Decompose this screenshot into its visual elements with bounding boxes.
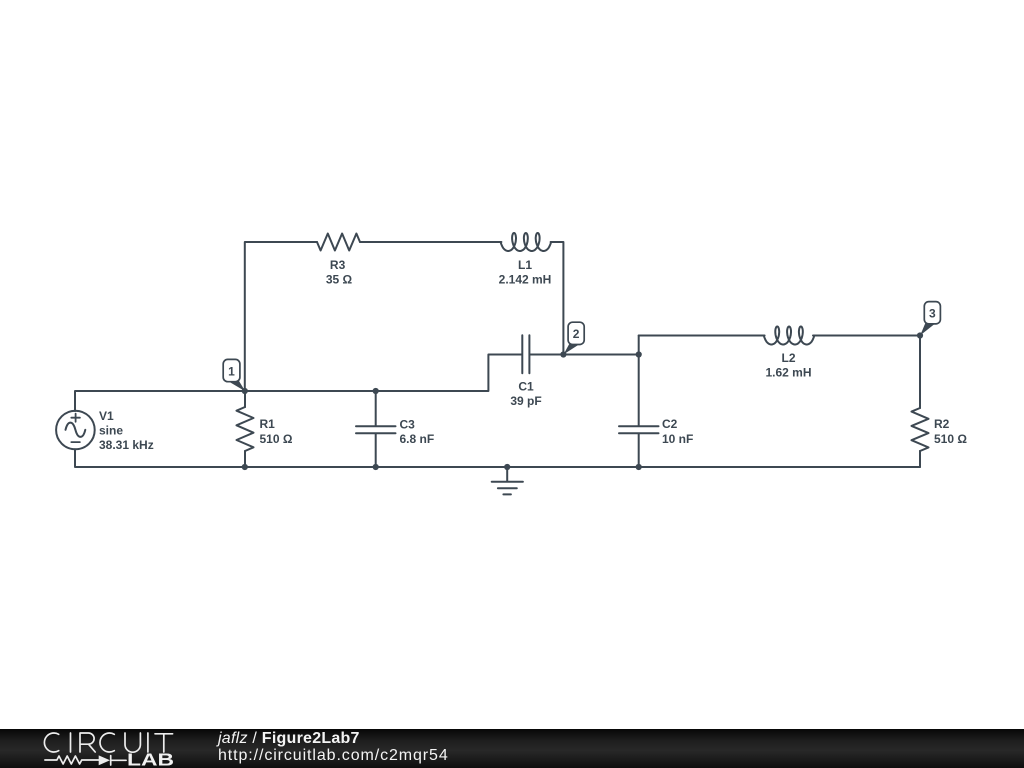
svg-text:R1: R1 [260,417,276,431]
svg-text:C3: C3 [400,418,416,432]
svg-text:3: 3 [929,307,936,321]
svg-text:V1: V1 [99,409,114,423]
svg-text:39 pF: 39 pF [510,394,541,408]
svg-text:C2: C2 [662,417,678,431]
svg-text:38.31 kHz: 38.31 kHz [99,438,154,452]
svg-text:sine: sine [99,424,123,438]
svg-text:6.8 nF: 6.8 nF [400,432,435,446]
svg-text:510 Ω: 510 Ω [934,432,967,446]
svg-text:L1: L1 [518,258,532,272]
svg-text:C1: C1 [518,380,534,394]
svg-text:35 Ω: 35 Ω [326,273,353,287]
svg-text:10 nF: 10 nF [662,432,693,446]
svg-text:R3: R3 [330,258,346,272]
svg-text:2.142 mH: 2.142 mH [499,273,552,287]
svg-text:1: 1 [228,364,235,378]
svg-text:510 Ω: 510 Ω [260,432,293,446]
svg-text:2: 2 [573,327,580,341]
svg-text:1.62 mH: 1.62 mH [765,366,811,380]
svg-text:R2: R2 [934,417,950,431]
svg-text:LAB: LAB [127,750,174,768]
svg-text:L2: L2 [781,351,795,365]
